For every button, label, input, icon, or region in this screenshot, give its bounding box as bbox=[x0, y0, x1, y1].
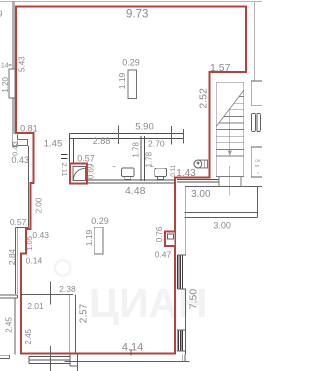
dimension 2.01 bbox=[27, 301, 44, 311]
toilet 1 bbox=[122, 168, 134, 180]
svg-text:2.84: 2.84 bbox=[7, 248, 17, 265]
svg-text:0.47: 0.47 bbox=[155, 250, 172, 260]
wall stub y227.6 bbox=[15, 227, 28, 229]
dimension 0.69 bbox=[87, 163, 96, 179]
dimension 0.57 left bbox=[10, 217, 27, 227]
dimension 0.29 mid bbox=[91, 216, 109, 226]
dimension 9.73 bbox=[126, 9, 148, 21]
svg-text:1.78: 1.78 bbox=[145, 151, 154, 167]
dimension 0.29 top bbox=[122, 57, 140, 67]
dimension 1.43 bbox=[176, 168, 196, 179]
room 3.00 right edge bbox=[257, 186, 259, 217]
svg-text:4.14: 4.14 bbox=[122, 342, 143, 354]
corridor wall band right of red bbox=[177, 180, 219, 182]
dimension 1.19 mid bbox=[84, 229, 94, 246]
svg-text:2.57: 2.57 bbox=[79, 303, 90, 323]
svg-text:2.70: 2.70 bbox=[148, 138, 165, 148]
svg-text:0.76: 0.76 bbox=[155, 226, 164, 242]
svg-text:0.11: 0.11 bbox=[170, 164, 177, 177]
staircase lower posts bbox=[219, 177, 241, 187]
outer building right line bbox=[254, 2, 256, 81]
wall stub bottom-left y295 bbox=[0, 295, 18, 298]
small duct box left bbox=[18, 140, 28, 146]
dimension 1.57 bbox=[210, 62, 231, 74]
dim tick x118.6 bbox=[118, 126, 120, 145]
corridor left wall line bbox=[14, 298, 16, 354]
svg-text:0.57: 0.57 bbox=[77, 153, 95, 163]
toilet 2 bbox=[155, 168, 167, 180]
svg-text:2.38: 2.38 bbox=[59, 284, 76, 294]
svg-text:5.90: 5.90 bbox=[135, 122, 154, 133]
dimension 2.45 left bbox=[5, 317, 14, 333]
svg-text:1.20: 1.20 bbox=[1, 76, 10, 92]
svg-text:2.45: 2.45 bbox=[5, 317, 14, 333]
svg-text:0.43: 0.43 bbox=[10, 141, 19, 156]
svg-text:3.00: 3.00 bbox=[213, 220, 231, 230]
pillar top 0.29 bbox=[128, 70, 136, 99]
bottom left wall stub bbox=[0, 355, 10, 358]
svg-text:9: 9 bbox=[0, 10, 3, 19]
bathroom top wall bbox=[70, 134, 184, 139]
right wall window 2 bbox=[177, 330, 186, 355]
bathroom bottom wall bbox=[70, 180, 175, 183]
dimension 0.43 step bbox=[32, 230, 49, 240]
dimension 0.81 bbox=[20, 123, 38, 133]
bottom middle room top line bbox=[22, 293, 73, 295]
dimension 0.43 horizontal bbox=[12, 155, 30, 165]
svg-text:7.50: 7.50 bbox=[187, 289, 199, 310]
svg-text:1.78: 1.78 bbox=[132, 141, 141, 157]
dimension 4.48 bbox=[125, 185, 146, 197]
dim tick 2.38 bbox=[49, 282, 51, 305]
dimension 7.50 bbox=[187, 289, 199, 310]
bottom right wall stubs bbox=[182, 355, 185, 362]
dimension 14 fragment bbox=[1, 62, 11, 69]
svg-text:1.43: 1.43 bbox=[176, 168, 196, 179]
svg-text:4.48: 4.48 bbox=[125, 185, 146, 197]
dim tick x171.3 bbox=[170, 126, 172, 145]
dimension 3.00 lower bbox=[213, 220, 231, 230]
dimension 1.05 bbox=[25, 236, 34, 251]
dimension 1.20 bbox=[1, 76, 10, 92]
staircase treads bbox=[216, 97, 244, 156]
svg-text:0.69: 0.69 bbox=[87, 163, 96, 179]
svg-text:2.52: 2.52 bbox=[198, 88, 210, 109]
dimension 0.14 bbox=[26, 256, 43, 266]
staircase diagonal bbox=[216, 90, 244, 126]
bathroom left wall bbox=[70, 134, 74, 184]
sink with round bowl bbox=[194, 160, 207, 168]
right wall between windows bbox=[184, 289, 186, 330]
dimension 5.90 bbox=[135, 122, 154, 133]
dimension 9 fragment top left bbox=[0, 10, 3, 19]
svg-text:0.57: 0.57 bbox=[10, 217, 27, 227]
wall line x28.6 bbox=[28, 146, 30, 228]
svg-text:14: 14 bbox=[1, 62, 9, 69]
left wall lower double line bbox=[12, 98, 18, 146]
svg-text:2.88: 2.88 bbox=[93, 136, 111, 146]
pillar bottom 0.29 bbox=[94, 227, 103, 254]
right edge room bracket B bbox=[251, 147, 262, 177]
red shaft box with door arc bbox=[70, 164, 87, 184]
radiators right edge bbox=[252, 113, 261, 131]
svg-text:1.45: 1.45 bbox=[44, 139, 63, 150]
svg-text:1.05: 1.05 bbox=[25, 236, 34, 251]
svg-text:0.81: 0.81 bbox=[20, 123, 38, 133]
svg-text:1.57: 1.57 bbox=[210, 62, 231, 74]
watermark ring logo bbox=[55, 260, 71, 276]
svg-text:пл: пл bbox=[255, 163, 260, 168]
room 3.00 bottom wall bbox=[185, 213, 258, 218]
left wall window 1.20 bbox=[9, 69, 15, 98]
dim tick x183.5 bbox=[183, 129, 185, 144]
room 3.00 left edge bbox=[184, 186, 186, 255]
svg-text:2.45: 2.45 bbox=[24, 328, 33, 344]
svg-text:5.43: 5.43 bbox=[18, 56, 27, 72]
svg-text:0.29: 0.29 bbox=[122, 57, 140, 67]
dimension 1.19 top bbox=[117, 72, 127, 89]
dimension 2.00 bbox=[34, 197, 43, 213]
dimension 2.38 bbox=[59, 284, 76, 294]
svg-text:0.14: 0.14 bbox=[26, 256, 43, 266]
room 3.00 top line bbox=[185, 185, 262, 187]
long gray line y361.4 bbox=[65, 360, 190, 362]
right wall window 1 bbox=[178, 255, 186, 289]
dimension 0.11 bbox=[170, 164, 177, 177]
svg-text:0.43: 0.43 bbox=[32, 230, 49, 240]
watermark text bbox=[89, 280, 208, 326]
bottom wall below room bbox=[70, 355, 78, 371]
dimension 0.43 rotated bbox=[10, 141, 19, 156]
dimension 0.47 bbox=[155, 250, 172, 260]
wall double x15-17 bbox=[15, 228, 17, 294]
tiny text right edge bbox=[255, 158, 261, 174]
red shaft box 2 bbox=[165, 232, 175, 247]
bottom vertical mullion x50.4 bbox=[49, 346, 51, 371]
dimension 2.88 bbox=[93, 136, 111, 146]
dimension 2.45 room bbox=[24, 328, 33, 344]
staircase box bbox=[216, 82, 244, 176]
svg-text:1.19: 1.19 bbox=[117, 72, 127, 89]
svg-text:3.00: 3.00 bbox=[191, 189, 211, 200]
bottom window band bbox=[29, 357, 69, 364]
door threshold marks bbox=[61, 154, 67, 158]
dimension 5.43 bbox=[18, 56, 27, 72]
small tick near toilet2 bbox=[112, 166, 153, 168]
dimension 0.57 bath bbox=[77, 153, 95, 163]
dimension 1.78 left bbox=[132, 141, 141, 157]
dimension 0.76 bbox=[155, 226, 164, 242]
dimension 2.57 bbox=[79, 303, 90, 323]
svg-text:1.19: 1.19 bbox=[84, 229, 94, 246]
bathroom partition wall bbox=[141, 136, 144, 181]
dimension 2.11 bbox=[60, 162, 69, 176]
dimension 3.00 upper bbox=[191, 189, 211, 200]
red apartment boundary bbox=[16, 6, 246, 353]
staircase center line with down arrow bbox=[228, 110, 232, 195]
svg-text:2.01: 2.01 bbox=[27, 301, 44, 311]
svg-text:2.00: 2.00 bbox=[34, 197, 43, 213]
outer building top line bbox=[0, 1, 262, 3]
svg-text:9.73: 9.73 bbox=[126, 9, 148, 21]
bottom middle room right wall bbox=[69, 294, 75, 352]
svg-text:0.29: 0.29 bbox=[91, 216, 109, 226]
dimension 1.45 bbox=[44, 139, 63, 150]
svg-text:0.43: 0.43 bbox=[12, 155, 30, 165]
dimension 2.70 bbox=[148, 138, 165, 148]
left wall upper double line bbox=[12, 2, 14, 70]
dimension 2.52 bbox=[198, 88, 210, 109]
svg-text:2.11: 2.11 bbox=[60, 162, 69, 176]
dim tick 4.14 bbox=[130, 349, 132, 356]
dimension 4.14 bbox=[122, 342, 143, 354]
dimension 2.84 bbox=[7, 248, 17, 265]
dimension 1.78 right bbox=[145, 151, 154, 167]
right edge room bracket A bbox=[251, 81, 262, 105]
